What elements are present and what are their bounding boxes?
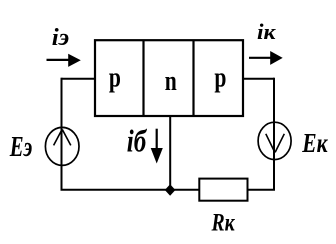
EMF source Eэ (circle) <box>45 127 79 165</box>
label Eэ <box>9 132 32 163</box>
junction node (base / bottom rail) <box>165 184 176 196</box>
svg-text:p: p <box>214 61 226 93</box>
bottom rail wire: Eэ to resistor <box>61 189 200 191</box>
junction divider (p|n) <box>142 40 144 116</box>
wire: left rail down through Eэ to bottom rail <box>61 78 63 191</box>
wire: base lead from n region to bottom rail <box>169 116 171 190</box>
svg-text:iэ: iэ <box>52 24 69 50</box>
Eк arrow (points down) <box>266 134 285 153</box>
transistor body Q1 (p-n-p block) <box>95 40 243 116</box>
label p (collector region) <box>214 61 226 93</box>
current arrow iк <box>249 51 283 65</box>
svg-text:iк: iк <box>257 20 276 44</box>
wire: emitter (box left edge) to left rail <box>62 78 96 80</box>
current arrow iэ <box>47 54 81 67</box>
svg-text:p: p <box>109 61 121 93</box>
current arrow iб <box>151 129 163 164</box>
label Rк <box>211 208 236 236</box>
resistor Rк <box>199 179 247 201</box>
svg-text:iб: iб <box>127 125 148 159</box>
label n (base region) <box>165 65 177 97</box>
Eэ arrow (points up) <box>54 130 71 146</box>
label iк <box>257 20 276 44</box>
svg-text:Eк: Eк <box>301 129 328 159</box>
svg-text:Eэ: Eэ <box>9 132 32 163</box>
label Eк <box>301 129 328 159</box>
label p (emitter region) <box>109 61 121 93</box>
EMF source Eк (circle) <box>258 122 291 159</box>
junction divider (n|p) <box>192 40 194 116</box>
bottom rail wire: resistor to Eк rail <box>248 189 276 191</box>
wire: right rail down through Eк to bottom rail <box>273 78 275 191</box>
wire: collector (box right edge) to right rail <box>243 78 274 80</box>
svg-text:n: n <box>165 65 177 97</box>
label iэ <box>52 24 69 50</box>
label iб <box>127 125 148 159</box>
svg-text:Rк: Rк <box>211 208 236 236</box>
